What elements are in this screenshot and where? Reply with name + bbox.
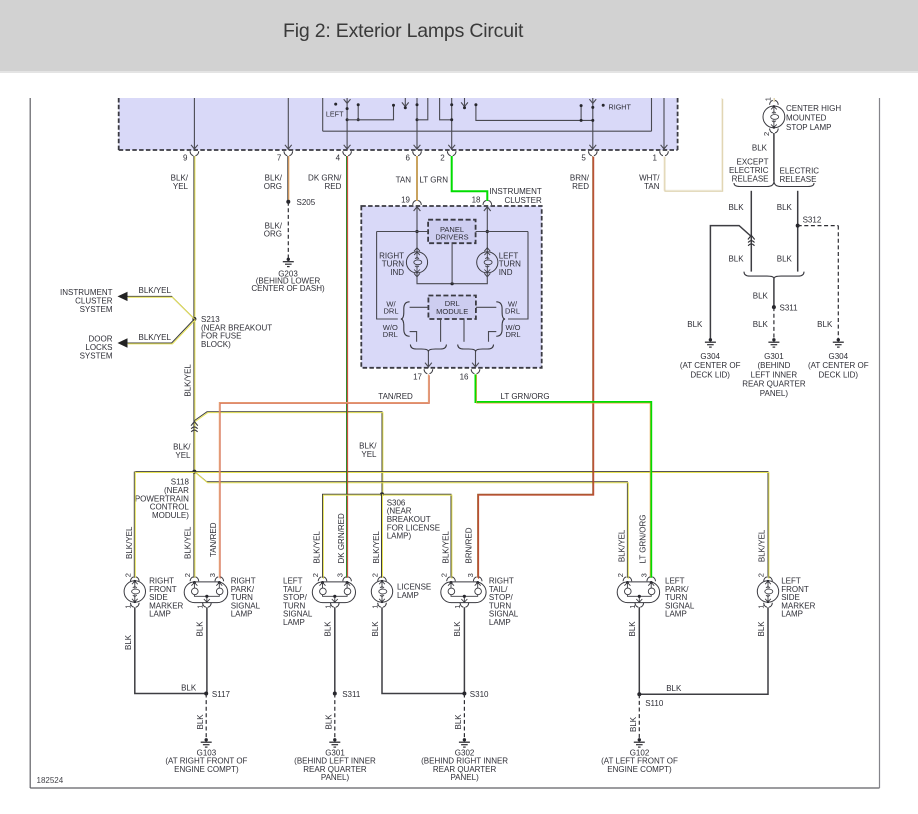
node LEFT xyxy=(334,103,337,106)
brace merge pin16 xyxy=(458,345,476,352)
svg-text:1: 1 xyxy=(757,605,766,609)
wire BLK dashed to G302 xyxy=(463,694,465,739)
brace merge xyxy=(744,272,774,279)
splice S110 xyxy=(637,692,641,696)
wire xyxy=(476,105,593,121)
svg-text:BLK: BLK xyxy=(777,203,793,212)
svg-text:ORG: ORG xyxy=(264,182,282,191)
svg-text:BLOCK): BLOCK) xyxy=(201,340,231,349)
pin 6 xyxy=(413,151,416,155)
svg-text:BLK/YEL: BLK/YEL xyxy=(139,286,172,295)
ground G203 xyxy=(287,258,290,261)
svg-text:BLK: BLK xyxy=(324,714,333,730)
svg-text:5: 5 xyxy=(581,153,586,162)
svg-text:BLK/YEL: BLK/YEL xyxy=(183,526,192,559)
wire pin19 to bus xyxy=(416,207,418,252)
wire BLK left park xyxy=(638,607,640,694)
svg-text:STOP LAMP: STOP LAMP xyxy=(786,123,832,132)
ground G302 xyxy=(463,738,466,741)
svg-text:LT GRN/ORG: LT GRN/ORG xyxy=(501,392,550,401)
svg-text:S310: S310 xyxy=(470,690,489,699)
splice S312 xyxy=(796,224,800,228)
svg-text:BLK: BLK xyxy=(124,634,133,650)
svg-text:CENTER OF DASH): CENTER OF DASH) xyxy=(251,284,325,293)
splice S118 xyxy=(192,470,196,474)
svg-text:19: 19 xyxy=(401,195,410,204)
svg-text:LAMP: LAMP xyxy=(665,610,687,619)
wire BLK/ORG pin7 xyxy=(287,156,289,202)
wire xyxy=(451,98,453,150)
wire dashed to right G304 xyxy=(798,225,839,227)
arrow instrument cluster system xyxy=(118,292,128,301)
svg-text:BRN/RED: BRN/RED xyxy=(465,527,474,563)
arrow pin4 xyxy=(344,145,351,149)
brace merge pin17 xyxy=(410,345,428,352)
svg-text:1: 1 xyxy=(123,605,132,609)
svg-text:TAN: TAN xyxy=(644,182,660,191)
wire S118 left to right front marker xyxy=(135,471,195,473)
svg-text:LT GRN: LT GRN xyxy=(419,175,448,184)
lamp RIGHT PARK/TURN SIGNAL xyxy=(190,577,193,581)
svg-text:1: 1 xyxy=(453,605,462,609)
wire drl module out right xyxy=(463,319,465,342)
lamp LEFT PARK/TURN SIGNAL xyxy=(623,577,626,581)
svg-text:2: 2 xyxy=(371,573,380,577)
svg-text:2: 2 xyxy=(183,573,192,577)
instrument cluster box xyxy=(361,206,541,368)
svg-text:BLK: BLK xyxy=(728,255,744,264)
svg-text:ENGINE COMPT): ENGINE COMPT) xyxy=(174,765,239,774)
svg-text:INSTRUMENT: INSTRUMENT xyxy=(489,187,542,196)
svg-text:(BEHIND: (BEHIND xyxy=(757,361,790,370)
svg-text:(AT CENTER OF: (AT CENTER OF xyxy=(808,361,869,370)
wire left down xyxy=(377,232,398,320)
svg-text:RIGHT: RIGHT xyxy=(609,102,632,111)
svg-text:RED: RED xyxy=(325,182,342,191)
splice S213 xyxy=(192,317,196,321)
wire TAN pin6 xyxy=(416,156,418,201)
wire TAN/RED xyxy=(219,374,428,577)
svg-text:BLK: BLK xyxy=(753,320,769,329)
lamp LEFT TURN IND xyxy=(484,248,490,252)
svg-text:9: 9 xyxy=(183,153,188,162)
svg-text:RED: RED xyxy=(572,182,589,191)
wire pin1 feed xyxy=(663,98,665,150)
wire branch right BLK xyxy=(797,191,799,272)
svg-text:G301: G301 xyxy=(764,352,784,361)
wire right down xyxy=(508,232,528,320)
wire xyxy=(346,98,348,150)
svg-text:LAMP: LAMP xyxy=(397,591,419,600)
arrow door locks system xyxy=(118,338,128,347)
svg-text:S205: S205 xyxy=(297,198,316,207)
lamp RIGHT TURN IND xyxy=(414,248,420,252)
svg-text:LAMP: LAMP xyxy=(781,610,803,619)
wire xyxy=(357,105,359,120)
wire BLK right park xyxy=(206,607,208,693)
drl module box xyxy=(428,296,476,320)
svg-text:1: 1 xyxy=(323,605,332,609)
inner relay box (solid) xyxy=(322,98,324,131)
splice S117 xyxy=(204,692,208,696)
svg-text:BLK: BLK xyxy=(752,144,768,153)
svg-text:4: 4 xyxy=(336,153,341,162)
svg-text:PANEL): PANEL) xyxy=(321,773,350,782)
svg-text:2: 2 xyxy=(440,573,449,577)
svg-text:182524: 182524 xyxy=(37,776,64,785)
splice S310 xyxy=(462,692,466,696)
pin 19 xyxy=(413,201,416,205)
wire w/drl left xyxy=(410,306,429,308)
wire S306 right xyxy=(382,494,451,578)
wire to pin17 xyxy=(427,352,429,368)
svg-text:17: 17 xyxy=(413,372,422,381)
header band xyxy=(0,0,918,71)
svg-text:Fig 2: Exterior Lamps Circuit: Fig 2: Exterior Lamps Circuit xyxy=(283,20,524,42)
splice S311 rear xyxy=(772,305,776,309)
svg-text:18: 18 xyxy=(472,195,481,204)
svg-text:BLK/YEL: BLK/YEL xyxy=(184,364,193,397)
svg-text:BLK: BLK xyxy=(196,714,205,730)
fuse/junction block box (dashed, cut at top) xyxy=(119,98,678,150)
svg-text:G304: G304 xyxy=(700,352,720,361)
svg-text:BLK: BLK xyxy=(181,683,197,692)
arrow pin5 xyxy=(589,145,596,149)
svg-text:BLK/YEL: BLK/YEL xyxy=(441,530,450,563)
wire pin7 feed xyxy=(287,98,289,150)
pin 2 xyxy=(447,151,450,155)
wire xyxy=(417,98,428,120)
svg-text:BLK: BLK xyxy=(777,255,793,264)
wire lamp bottoms bus xyxy=(417,273,487,284)
svg-text:MOUNTED: MOUNTED xyxy=(786,113,827,122)
svg-text:LEFT: LEFT xyxy=(326,109,344,118)
svg-text:BLK: BLK xyxy=(687,320,703,329)
svg-text:G304: G304 xyxy=(829,352,849,361)
svg-text:IND: IND xyxy=(499,268,513,277)
wire BLK stop lamp xyxy=(773,133,775,181)
lamp LICENSE xyxy=(378,577,381,581)
arrow pin6 xyxy=(414,145,421,149)
svg-text:YEL: YEL xyxy=(361,450,377,459)
wire BLK license xyxy=(382,607,464,693)
svg-text:1: 1 xyxy=(628,605,637,609)
svg-text:S311: S311 xyxy=(342,690,361,699)
svg-text:S311: S311 xyxy=(780,303,799,312)
wire BLK right front marker xyxy=(135,607,206,693)
svg-text:1: 1 xyxy=(371,605,380,609)
wire BLK/YEL branch to S306 xyxy=(194,412,382,495)
svg-text:S117: S117 xyxy=(212,690,231,699)
svg-text:YEL: YEL xyxy=(175,451,191,460)
pin 17 xyxy=(424,369,427,373)
pin 9 xyxy=(190,151,193,155)
wire S306 left xyxy=(323,494,383,578)
svg-text:PANEL): PANEL) xyxy=(450,773,479,782)
svg-text:1: 1 xyxy=(195,605,204,609)
svg-text:LAMP: LAMP xyxy=(149,610,171,619)
ground G103 xyxy=(205,738,208,741)
wire BLK left tail xyxy=(334,607,336,693)
wire panel drivers to bus xyxy=(451,243,453,284)
svg-text:RELEASE: RELEASE xyxy=(780,175,817,184)
svg-text:PANEL): PANEL) xyxy=(760,389,789,398)
svg-text:DRIVERS: DRIVERS xyxy=(435,233,468,242)
ground G301 rear xyxy=(772,338,775,341)
svg-text:BLK: BLK xyxy=(728,203,744,212)
svg-text:TAN/RED: TAN/RED xyxy=(378,392,413,401)
svg-text:RELEASE: RELEASE xyxy=(732,174,769,183)
svg-text:BLK: BLK xyxy=(454,714,463,730)
wire to instrument cluster system xyxy=(127,296,194,319)
svg-text:3: 3 xyxy=(208,573,217,577)
svg-text:BLK: BLK xyxy=(666,684,682,693)
brace left options xyxy=(401,302,410,337)
arrow pin2 xyxy=(448,145,455,149)
wire branch left BLK xyxy=(750,191,752,272)
svg-text:BLK: BLK xyxy=(628,621,637,637)
svg-text:ORG: ORG xyxy=(264,230,282,239)
splice S205 xyxy=(286,200,290,204)
svg-text:YEL: YEL xyxy=(173,182,189,191)
lamp RIGHT FRONT SIDE MARKER xyxy=(131,577,134,581)
svg-text:BLK: BLK xyxy=(817,320,833,329)
svg-text:BLK: BLK xyxy=(753,292,769,301)
wire BLK dashed to G103 xyxy=(205,694,207,739)
svg-text:LAMP: LAMP xyxy=(283,618,305,627)
svg-text:IND: IND xyxy=(390,268,404,277)
svg-text:CENTER HIGH: CENTER HIGH xyxy=(786,104,841,113)
pin 7 xyxy=(284,151,287,155)
svg-text:S110: S110 xyxy=(645,699,664,708)
wire BLK/YEL pin9 xyxy=(193,156,195,578)
lamp LEFT FRONT SIDE MARKER xyxy=(764,577,767,581)
wire xyxy=(592,98,594,150)
wire to pin16 xyxy=(475,352,477,368)
svg-text:1: 1 xyxy=(653,153,658,162)
lamp LEFT TAIL/STOP/TURN SIGNAL xyxy=(318,577,321,581)
svg-text:2: 2 xyxy=(762,132,771,136)
svg-text:BLK: BLK xyxy=(324,621,333,637)
wire BLK dashed to G301 xyxy=(334,694,336,739)
wire bus left xyxy=(377,231,429,233)
svg-text:BLK/YEL: BLK/YEL xyxy=(125,526,134,559)
svg-text:REAR QUARTER: REAR QUARTER xyxy=(742,380,806,389)
continuation arrow on BLK/YEL xyxy=(191,422,198,426)
wire dashed to G301 xyxy=(773,307,775,338)
wire BLK dashed to G203 xyxy=(287,202,289,258)
pin 1 stop lamp xyxy=(770,100,773,104)
splice S311 xyxy=(333,692,337,696)
wire WHT/TAN stub stop lamp xyxy=(772,98,774,102)
wire S118 diag to left park xyxy=(194,472,627,578)
svg-text:6: 6 xyxy=(406,153,411,162)
svg-text:LEFT INNER: LEFT INNER xyxy=(751,370,798,379)
wire xyxy=(416,98,418,150)
wire S306 down license xyxy=(381,494,383,578)
svg-text:3: 3 xyxy=(336,573,345,577)
wire xyxy=(404,98,406,108)
svg-text:BLK: BLK xyxy=(196,621,205,637)
wire w/o drl elbow right xyxy=(489,332,497,342)
wire BLK right tail xyxy=(463,607,465,693)
svg-text:DRL: DRL xyxy=(383,307,398,316)
wire pin18 to bus xyxy=(486,207,488,252)
svg-text:BLK: BLK xyxy=(371,621,380,637)
pin 16 xyxy=(471,369,474,373)
wire LT GRN pin2 xyxy=(452,156,488,201)
svg-text:BLK/YEL: BLK/YEL xyxy=(617,529,626,562)
pin 1 xyxy=(660,151,663,155)
wire pin9 feed xyxy=(193,98,195,150)
svg-text:BLK: BLK xyxy=(629,716,638,732)
wire w/drl right xyxy=(476,306,496,308)
svg-text:DRL: DRL xyxy=(505,330,520,339)
panel drivers box xyxy=(428,220,476,244)
wire BLK left front marker xyxy=(639,607,768,694)
svg-text:2: 2 xyxy=(123,573,132,577)
svg-text:BLK: BLK xyxy=(757,621,766,637)
wire drl module out left xyxy=(440,319,442,342)
svg-text:MODULE): MODULE) xyxy=(152,511,189,520)
svg-text:LT GRN/ORG: LT GRN/ORG xyxy=(638,514,647,563)
ground G304 left xyxy=(709,338,712,341)
wire w/o drl elbow left xyxy=(410,332,417,342)
svg-text:2: 2 xyxy=(757,573,766,577)
svg-text:S312: S312 xyxy=(803,215,822,224)
wire BRN/RED pin5 xyxy=(478,156,593,578)
wire to door locks system xyxy=(127,319,194,343)
svg-text:ENGINE COMPT): ENGINE COMPT) xyxy=(607,765,672,774)
svg-text:MODULE: MODULE xyxy=(436,307,468,316)
ground G301 xyxy=(333,738,336,741)
wire DK GRN/RED pin4 xyxy=(346,156,348,578)
ground G304 right xyxy=(837,338,840,341)
svg-text:BLK: BLK xyxy=(453,621,462,637)
continuation arrow xyxy=(748,235,755,239)
wire xyxy=(440,98,452,120)
svg-text:BLK/YEL: BLK/YEL xyxy=(139,333,172,342)
wire bus right xyxy=(476,231,528,233)
svg-text:BLK/YEL: BLK/YEL xyxy=(372,530,381,563)
svg-text:DRL: DRL xyxy=(505,307,520,316)
pin 18 xyxy=(483,201,486,205)
splice S306 xyxy=(380,492,384,496)
ground G102 xyxy=(638,738,641,741)
lamp CENTER HIGH MOUNTED STOP xyxy=(763,106,785,128)
svg-text:2: 2 xyxy=(440,153,445,162)
svg-text:2: 2 xyxy=(311,573,320,577)
svg-text:SYSTEM: SYSTEM xyxy=(80,305,113,314)
svg-text:DECK LID): DECK LID) xyxy=(690,370,730,379)
wire S118 right to left front marker xyxy=(194,472,768,578)
svg-text:TAN/RED: TAN/RED xyxy=(209,522,218,557)
wire to left G304 xyxy=(710,226,751,339)
svg-text:DRL: DRL xyxy=(383,330,398,339)
svg-text:3: 3 xyxy=(640,573,649,577)
svg-text:SYSTEM: SYSTEM xyxy=(80,351,113,360)
svg-text:CLUSTER: CLUSTER xyxy=(504,196,542,205)
svg-text:DECK LID): DECK LID) xyxy=(819,370,859,379)
pin 5 xyxy=(589,151,592,155)
wire WHT/TAN pin1 xyxy=(664,98,722,190)
svg-text:LAMP): LAMP) xyxy=(387,532,412,541)
brace right options xyxy=(496,302,505,337)
svg-text:DK GRN/RED: DK GRN/RED xyxy=(337,513,346,563)
node RIGHT xyxy=(602,104,605,107)
svg-text:(AT CENTER OF: (AT CENTER OF xyxy=(680,361,741,370)
svg-text:BLK/YEL: BLK/YEL xyxy=(312,530,321,563)
lamp RIGHT TAIL/STOP/TURN SIGNAL xyxy=(447,577,450,581)
svg-text:2: 2 xyxy=(616,573,625,577)
svg-text:BLK/YEL: BLK/YEL xyxy=(758,529,767,562)
svg-text:7: 7 xyxy=(277,153,282,162)
svg-text:LAMP: LAMP xyxy=(231,610,253,619)
wire BLK dashed to G102 xyxy=(638,694,640,738)
wire xyxy=(347,105,393,120)
brace split xyxy=(734,181,774,187)
svg-text:TAN: TAN xyxy=(396,175,412,184)
svg-text:16: 16 xyxy=(460,372,469,381)
diagram frame (open top) xyxy=(29,98,31,788)
svg-text:1: 1 xyxy=(764,97,773,101)
pin 4 xyxy=(343,151,346,155)
svg-text:LAMP: LAMP xyxy=(489,618,511,627)
wire LT GRN/ORG xyxy=(476,374,652,577)
wire xyxy=(464,98,466,108)
wire merged BLK xyxy=(773,278,775,307)
pin 2 stop lamp xyxy=(770,129,773,133)
wire xyxy=(580,106,582,121)
svg-text:3: 3 xyxy=(466,573,475,577)
